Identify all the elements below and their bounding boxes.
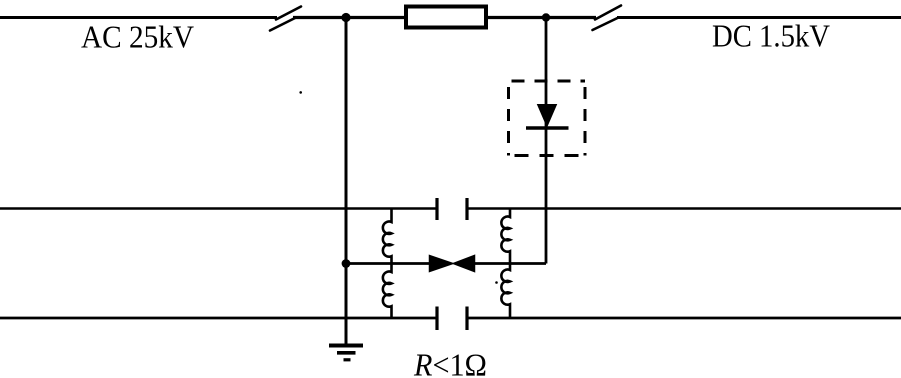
bidirectional diode right triangle bbox=[453, 256, 474, 272]
node C junction dot (middle wire at ground leg) bbox=[342, 259, 351, 268]
rail conductor 1 (upper rail, right of C1) bbox=[468, 207, 901, 210]
resistor R (series resistor in catenary) bbox=[406, 7, 486, 28]
rail conductor 1 (upper rail, left of C1) bbox=[0, 207, 436, 210]
inductor L1 (left choke between rails) bbox=[383, 209, 392, 317]
svg-text:DC 1.5kV: DC 1.5kV bbox=[712, 18, 830, 54]
scan speck near L2 bbox=[495, 281, 498, 284]
wire top middle segment bbox=[293, 16, 596, 19]
capacitor C1 (in upper rail) bbox=[437, 198, 467, 220]
rail conductor 2 (lower rail, right of C2) bbox=[468, 317, 901, 320]
node A junction dot bbox=[341, 13, 350, 22]
wire node A to ground (vertical) bbox=[345, 18, 348, 346]
diode D1 (inside dashed box) bbox=[526, 105, 569, 129]
break mark (isolation gap) right of node B bbox=[593, 6, 622, 31]
scan speck near break mark bbox=[299, 91, 302, 94]
wire DC feeder (top-right segment) bbox=[617, 16, 901, 19]
wire middle link right segment bbox=[475, 262, 547, 265]
node B junction dot bbox=[542, 13, 550, 21]
bidirectional diode (spark-gap device) left triangle bbox=[430, 256, 453, 272]
dashed enclosure (arrester box) bbox=[509, 81, 586, 156]
break mark (isolation gap) left of node A bbox=[270, 7, 301, 31]
svg-text:R<1Ω: R<1Ω bbox=[413, 347, 487, 378]
wire AC feeder (top-left segment) bbox=[0, 16, 277, 19]
ground symbol bbox=[329, 346, 363, 360]
svg-text:AC 25kV: AC 25kV bbox=[81, 19, 194, 55]
rail conductor 2 (lower rail, left of C2) bbox=[0, 317, 436, 320]
inductor L2 (right choke between rails) bbox=[501, 209, 510, 317]
wire node B down through arrester box bbox=[545, 18, 548, 264]
capacitor C2 (in lower rail) bbox=[437, 307, 467, 331]
wire middle link left segment bbox=[346, 262, 431, 265]
